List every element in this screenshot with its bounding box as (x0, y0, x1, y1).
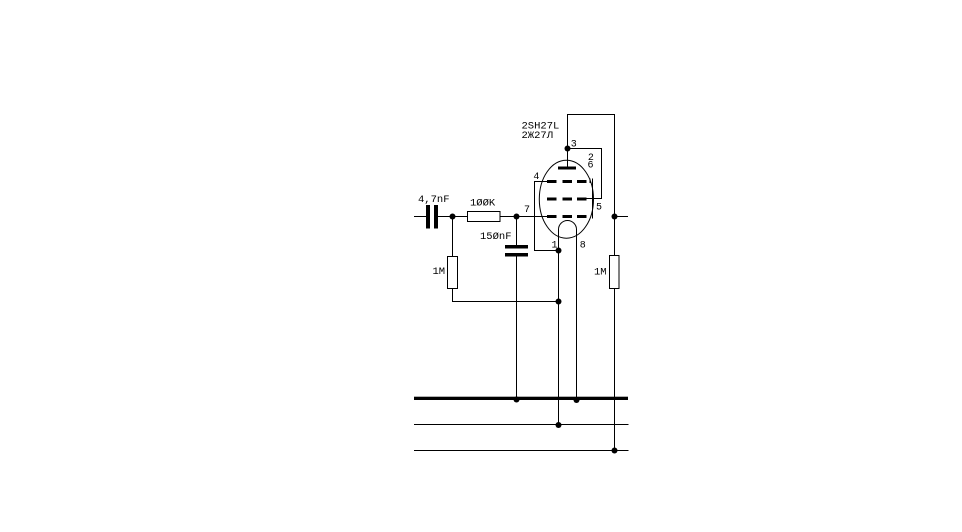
resistor R1 100K body (468, 212, 501, 222)
resistor R2 1M body (448, 257, 458, 289)
wire C2 to thick bus (516, 257, 518, 400)
svg-text:4: 4 (533, 172, 539, 183)
tube grid g1 dashes (bottom row) (547, 215, 557, 218)
wire pin 8 filament right leg down to thick bus (576, 230, 578, 400)
capacitor C2 150nF plates (505, 245, 528, 249)
svg-text:1M: 1M (433, 266, 446, 278)
tube filament loop arch (559, 221, 577, 230)
node pin 1 junction dot (556, 248, 562, 254)
wire screen bracket pins 2,6 to anode node (568, 149, 602, 199)
node R2 return junction dot (556, 299, 562, 305)
wire output stub (615, 216, 629, 218)
wire g3 to pin 4 down to pin1 node (535, 182, 559, 251)
bus line 3 (414, 450, 629, 452)
node A junction dot (450, 214, 456, 220)
node pin 3 junction dot (565, 146, 571, 152)
svg-text:8: 8 (580, 241, 586, 252)
wire pin 5 stub (592, 179, 594, 219)
bus line 2 (414, 424, 629, 426)
svg-text:6: 6 (588, 160, 594, 171)
node B junction dot (514, 214, 520, 220)
wire R3 bottom down to bus 3 (614, 289, 616, 451)
thick supply bus (414, 397, 628, 400)
tube grid g3 dashes (top row) (547, 180, 557, 183)
node C2 on thick bus dot (514, 397, 520, 403)
node right rail junction dot (612, 214, 618, 220)
node pin1 leg on bus 2 dot (556, 422, 562, 428)
svg-text:2Ж27Л: 2Ж27Л (522, 130, 554, 142)
wire capacitor to node A (438, 216, 468, 218)
node R3 on bus 3 dot (612, 448, 618, 454)
wire anode up over to right rail (568, 115, 615, 256)
svg-text:4,7nF: 4,7nF (418, 194, 450, 206)
wire node A down to R2 (452, 217, 454, 257)
svg-text:1M: 1M (594, 267, 607, 279)
wire pin 1 filament left leg down to bus 2 (558, 230, 560, 426)
capacitor C1 4,7nF plates (426, 205, 430, 229)
node pin 8 on thick bus dot (574, 397, 580, 403)
tube anode lead up to pin3 (567, 149, 569, 167)
wire R1 to node B and into grid g1 (500, 216, 548, 218)
pin 5 tick at g3 right end (589, 179, 591, 184)
svg-text:15ØnF: 15ØnF (480, 231, 512, 243)
wire input to capacitor (414, 216, 426, 218)
svg-text:1ØØK: 1ØØK (470, 198, 496, 210)
tube anode bar (558, 167, 576, 170)
svg-text:5: 5 (596, 202, 602, 213)
tube V1 envelope (539, 160, 593, 238)
resistor R3 1M body (610, 256, 620, 289)
svg-text:7: 7 (524, 205, 530, 216)
wire R2 bottom L-run to pin1 leg (453, 289, 559, 302)
wire node B down to C2 (516, 217, 518, 246)
tube grid g2 dashes (middle row) (547, 198, 557, 201)
